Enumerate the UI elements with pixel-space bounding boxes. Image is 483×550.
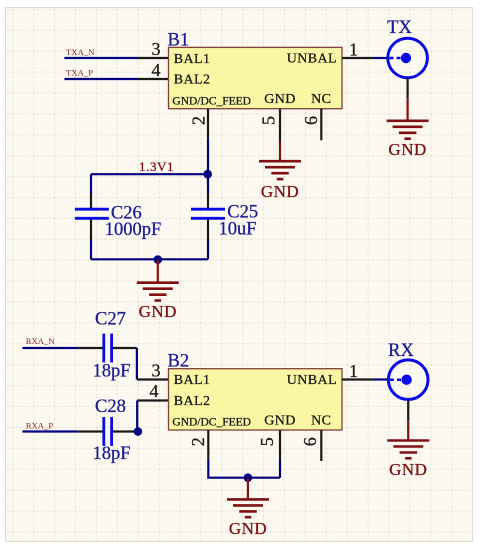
svg-text:C27: C27 — [95, 309, 126, 329]
svg-text:BAL1: BAL1 — [174, 373, 211, 388]
svg-text:GND: GND — [389, 460, 427, 479]
svg-text:5: 5 — [257, 437, 277, 446]
svg-text:B1: B1 — [168, 30, 190, 50]
svg-text:10uF: 10uF — [219, 220, 257, 240]
svg-text:GND: GND — [264, 414, 296, 429]
svg-text:3: 3 — [152, 361, 161, 381]
svg-text:18pF: 18pF — [93, 444, 131, 464]
svg-text:GND/DC_FEED: GND/DC_FEED — [172, 417, 251, 429]
svg-text:GND/DC_FEED: GND/DC_FEED — [172, 95, 251, 107]
svg-text:1: 1 — [349, 361, 358, 381]
svg-text:5: 5 — [259, 116, 279, 125]
svg-text:1000pF: 1000pF — [105, 220, 162, 240]
svg-text:RXA_P: RXA_P — [26, 421, 54, 431]
svg-text:4: 4 — [150, 381, 159, 401]
svg-text:UNBAL: UNBAL — [287, 52, 337, 67]
svg-text:18pF: 18pF — [93, 362, 131, 382]
svg-text:GND: GND — [264, 92, 296, 107]
svg-text:B2: B2 — [168, 352, 190, 372]
svg-text:RX: RX — [388, 341, 414, 361]
svg-text:2: 2 — [188, 437, 208, 446]
svg-text:C28: C28 — [95, 397, 126, 417]
svg-text:TX: TX — [387, 18, 412, 38]
svg-text:4: 4 — [152, 60, 161, 80]
svg-text:6: 6 — [300, 437, 320, 446]
svg-text:BAL2: BAL2 — [174, 394, 211, 409]
svg-text:1: 1 — [349, 40, 358, 60]
svg-text:GND: GND — [388, 140, 426, 159]
svg-text:3: 3 — [152, 39, 161, 59]
svg-text:TXA_P: TXA_P — [66, 68, 93, 78]
svg-text:6: 6 — [301, 116, 321, 125]
svg-text:BAL1: BAL1 — [174, 52, 211, 67]
svg-text:1.3V1: 1.3V1 — [139, 159, 174, 174]
svg-text:NC: NC — [311, 414, 331, 429]
svg-text:GND: GND — [229, 519, 267, 538]
svg-text:NC: NC — [311, 92, 331, 107]
svg-text:RXA_N: RXA_N — [26, 336, 56, 346]
svg-text:UNBAL: UNBAL — [287, 373, 337, 388]
svg-text:BAL2: BAL2 — [174, 73, 211, 88]
svg-text:GND: GND — [261, 182, 299, 201]
svg-text:2: 2 — [189, 116, 209, 125]
svg-text:GND: GND — [139, 302, 177, 321]
svg-text:TXA_N: TXA_N — [66, 47, 95, 57]
